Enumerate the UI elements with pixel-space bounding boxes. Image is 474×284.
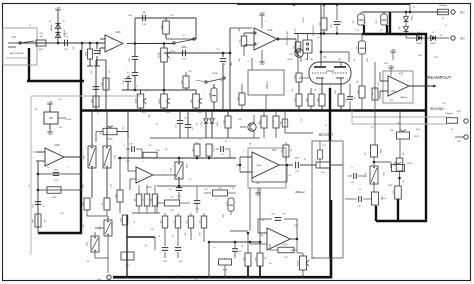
svg-text:10K: 10K: [305, 59, 308, 61]
svg-text:C4.1: C4.1: [129, 74, 131, 78]
svg-text:R5c: R5c: [282, 149, 284, 152]
svg-text:R73: R73: [244, 257, 246, 260]
svg-text:A100K: A100K: [297, 260, 300, 266]
svg-text:2: 2: [112, 49, 113, 51]
svg-text:10K: 10K: [269, 263, 272, 265]
svg-text:15V: 15V: [440, 35, 443, 37]
svg-text:4n7: 4n7: [289, 175, 292, 177]
svg-text:DR1: DR1: [460, 13, 465, 15]
svg-text:J1: J1: [29, 25, 31, 27]
svg-text:C42: C42: [176, 124, 178, 127]
svg-text:10n: 10n: [145, 245, 148, 247]
svg-text:IC3a: IC3a: [384, 63, 388, 65]
svg-text:1u: 1u: [135, 85, 137, 87]
svg-text:2X15V: 2X15V: [65, 119, 72, 121]
svg-text:C80: C80: [151, 229, 154, 231]
svg-text:1n: 1n: [351, 167, 353, 169]
svg-text:C43: C43: [191, 126, 193, 129]
svg-text:R10: R10: [212, 148, 214, 151]
svg-text:3: 3: [112, 39, 113, 41]
svg-text:R43: R43: [239, 119, 242, 121]
svg-text:100K: 100K: [60, 213, 64, 215]
svg-text:R5b: R5b: [371, 92, 373, 95]
svg-text:PE: PE: [35, 109, 37, 111]
svg-text:1n: 1n: [199, 139, 201, 141]
svg-text:+15V: +15V: [259, 13, 265, 15]
svg-text:NP: NP: [304, 159, 306, 161]
svg-text:R22: R22: [320, 22, 322, 25]
svg-text:R60: R60: [127, 161, 130, 163]
svg-text:V1: V1: [323, 55, 327, 59]
svg-text:IC2: IC2: [268, 28, 273, 32]
svg-text:REVOUT: REVOUT: [319, 133, 334, 137]
svg-text:10uF: 10uF: [382, 198, 386, 200]
svg-text:22u: 22u: [233, 187, 235, 190]
svg-text:10K: 10K: [211, 145, 213, 148]
svg-text:16u: 16u: [354, 59, 356, 62]
svg-text:MGBL: MGBL: [392, 91, 397, 93]
svg-text:15V: 15V: [399, 35, 402, 37]
svg-text:C4.8: C4.8: [123, 80, 125, 84]
svg-text:R76: R76: [161, 220, 163, 223]
svg-text:820R: 820R: [335, 90, 337, 93]
svg-text:D2: D2: [63, 21, 65, 23]
svg-text:C55: C55: [238, 251, 241, 253]
svg-text:100pF: 100pF: [294, 225, 298, 227]
svg-text:1N4007: 1N4007: [416, 43, 422, 45]
svg-text:VR6: VR6: [376, 20, 378, 23]
svg-text:47K: 47K: [205, 189, 208, 191]
svg-text:1n: 1n: [123, 145, 125, 147]
svg-text:BC549: BC549: [287, 59, 292, 61]
svg-text:C58: C58: [227, 202, 229, 205]
svg-text:IC7b: IC7b: [282, 244, 288, 247]
svg-text:4u7: 4u7: [224, 63, 226, 66]
svg-text:B10K: B10K: [382, 172, 384, 175]
svg-text:-15V: -15V: [48, 134, 53, 136]
svg-text:R11: R11: [240, 39, 242, 42]
svg-text:1M: 1M: [40, 36, 43, 38]
svg-text:47K: 47K: [291, 149, 293, 152]
svg-text:2u2: 2u2: [359, 189, 362, 191]
svg-text:4.7u: 4.7u: [64, 36, 68, 38]
svg-text:47u: 47u: [102, 46, 104, 49]
svg-text:R16: R16: [295, 75, 297, 78]
svg-text:47u: 47u: [365, 21, 367, 24]
svg-text:10u: 10u: [185, 117, 187, 120]
svg-text:1n0: 1n0: [87, 261, 90, 263]
svg-text:1: 1: [125, 46, 126, 48]
svg-text:1n: 1n: [247, 61, 249, 63]
svg-text:R18: R18: [318, 98, 320, 101]
svg-text:R42: R42: [224, 120, 226, 123]
svg-text:47K: 47K: [295, 29, 297, 32]
svg-text:350V: 350V: [367, 58, 369, 62]
svg-text:10K: 10K: [83, 225, 85, 228]
svg-text:+15V: +15V: [390, 50, 396, 52]
svg-text:+15V: +15V: [388, 66, 394, 68]
svg-text:1M0: 1M0: [357, 80, 359, 83]
svg-text:1K0: 1K0: [99, 133, 102, 135]
svg-text:A100K: A100K: [107, 138, 113, 141]
svg-text:R53: R53: [102, 82, 104, 85]
svg-text:220K: 220K: [331, 24, 333, 28]
svg-text:C4.3: C4.3: [129, 58, 131, 62]
svg-text:R64: R64: [261, 235, 264, 237]
svg-text:D1: D1: [49, 21, 51, 23]
svg-text:C50: C50: [357, 46, 359, 49]
svg-text:25V: 25V: [171, 235, 173, 238]
svg-text:73.1: 73.1: [11, 35, 17, 39]
svg-text:R52: R52: [92, 99, 94, 102]
svg-text:47K: 47K: [242, 245, 244, 248]
svg-text:X100: X100: [87, 242, 89, 246]
svg-text:7915: 7915: [58, 127, 62, 129]
svg-text:DR2: DR2: [460, 39, 465, 41]
svg-text:100n: 100n: [198, 232, 200, 235]
svg-text:ECC83: ECC83: [326, 71, 334, 73]
svg-text:IC6: IC6: [272, 148, 277, 152]
svg-text:VR11: VR11: [388, 185, 393, 187]
svg-text:IC3: IC3: [399, 72, 404, 76]
svg-text:PREAMPOUT: PREAMPOUT: [425, 75, 452, 80]
svg-text:R1b: R1b: [281, 121, 283, 124]
svg-text:+NF: +NF: [261, 220, 264, 222]
svg-text:22K: 22K: [265, 257, 267, 260]
svg-text:C10: C10: [350, 182, 353, 184]
svg-text:VR5: VR5: [353, 20, 355, 23]
svg-text:R4d: R4d: [272, 120, 274, 123]
svg-text:D1: D1: [418, 32, 420, 34]
svg-text:VR10: VR10: [407, 163, 413, 165]
svg-text:R02: R02: [218, 188, 221, 190]
svg-text:D5: D5: [399, 27, 401, 29]
svg-text:1u: 1u: [215, 199, 217, 201]
svg-text:50Hz: 50Hz: [418, 55, 422, 57]
svg-text:47u: 47u: [389, 21, 391, 24]
svg-text:100K: 100K: [396, 123, 400, 125]
svg-text:4,5: 4,5: [329, 87, 331, 89]
svg-text:OUT: OUT: [442, 103, 445, 105]
svg-text:D2: D2: [432, 32, 434, 34]
svg-text:R1c: R1c: [301, 118, 303, 121]
svg-text:R59: R59: [156, 150, 159, 152]
svg-text:SIGGND: SIGGND: [430, 107, 444, 111]
svg-text:0V: 0V: [97, 113, 99, 115]
svg-text:R44: R44: [260, 120, 262, 123]
svg-text:R5a: R5a: [358, 90, 360, 93]
svg-text:1n0: 1n0: [317, 37, 320, 39]
svg-text:R78: R78: [187, 220, 189, 223]
svg-text:ABGa1: ABGa1: [400, 96, 408, 99]
svg-text:1uF: 1uF: [42, 205, 44, 208]
svg-text:R57: R57: [182, 80, 184, 83]
svg-text:C79: C79: [200, 220, 202, 223]
svg-text:IC7a: IC7a: [146, 186, 152, 189]
svg-text:IC4b: IC4b: [54, 143, 60, 147]
svg-text:TR1: TR1: [322, 145, 325, 147]
svg-text:R23: R23: [344, 98, 346, 101]
svg-text:AS-PC MONO: AS-PC MONO: [10, 52, 24, 55]
svg-text:100R: 100R: [223, 214, 225, 217]
svg-text:100K: 100K: [91, 70, 93, 74]
svg-text:X101: X101: [84, 155, 86, 159]
svg-text:1M0: 1M0: [403, 152, 405, 155]
svg-text:4051: 4051: [109, 184, 111, 188]
svg-text:R54: R54: [238, 97, 240, 100]
svg-text:1n: 1n: [213, 247, 215, 249]
svg-text:R15: R15: [294, 45, 296, 48]
svg-text:22K: 22K: [109, 71, 111, 74]
svg-text:-15V: -15V: [163, 261, 168, 263]
svg-text:R65: R65: [257, 183, 260, 185]
svg-text:MGBL: MGBL: [257, 165, 262, 167]
svg-text:10K: 10K: [110, 225, 112, 228]
svg-text:47n: 47n: [341, 21, 343, 24]
svg-text:500mAmp: 500mAmp: [445, 112, 453, 115]
svg-text:1K: 1K: [315, 159, 317, 161]
svg-text:R51: R51: [193, 148, 195, 151]
svg-text:1M0: 1M0: [39, 33, 43, 35]
svg-text:R77: R77: [393, 190, 395, 193]
svg-text:R80: R80: [33, 219, 35, 222]
svg-text:+15V: +15V: [47, 102, 53, 104]
svg-text:10n: 10n: [165, 149, 168, 151]
svg-text:R10: R10: [239, 28, 241, 31]
svg-text:8uF: 8uF: [353, 97, 355, 100]
svg-text:4n7: 4n7: [183, 35, 186, 37]
svg-text:47u: 47u: [134, 221, 136, 224]
svg-text:D5: D5: [413, 7, 415, 9]
svg-text:4051: 4051: [83, 184, 85, 188]
svg-text:10u: 10u: [127, 72, 130, 74]
svg-text:A10K: A10K: [135, 98, 138, 103]
svg-text:ABG41: ABG41: [266, 80, 269, 88]
svg-text:100n: 100n: [185, 232, 187, 235]
svg-text:R19: R19: [307, 98, 309, 101]
svg-text:22n: 22n: [189, 179, 192, 181]
svg-text:10K: 10K: [47, 167, 50, 169]
svg-text:22K: 22K: [149, 145, 152, 147]
svg-text:C47: C47: [220, 154, 223, 156]
svg-text:47K: 47K: [365, 153, 367, 156]
svg-text:R61: R61: [83, 202, 85, 205]
svg-text:470K: 470K: [378, 82, 380, 85]
svg-text:PHPSHIFTER: PHPSHIFTER: [287, 31, 289, 45]
svg-text:LK12: LK12: [303, 17, 305, 23]
svg-text:NE: NE: [49, 117, 53, 120]
svg-text:4u7: 4u7: [65, 33, 68, 35]
svg-text:680R: 680R: [149, 114, 151, 117]
svg-text:100K: 100K: [239, 58, 241, 62]
svg-text:22u: 22u: [371, 127, 374, 129]
svg-text:OP: OP: [325, 125, 327, 127]
svg-text:C62: C62: [33, 204, 35, 207]
svg-text:10u: 10u: [221, 79, 223, 82]
svg-text:T1: T1: [445, 25, 447, 27]
svg-text:PM: PM: [290, 54, 293, 56]
svg-text:B100K: B100K: [185, 164, 187, 168]
svg-text:+NF: +NF: [248, 144, 251, 146]
svg-text:R81: R81: [121, 218, 123, 221]
svg-text:C40: C40: [357, 206, 360, 208]
svg-text:R17: R17: [295, 98, 297, 101]
svg-text:LED1: LED1: [201, 122, 203, 127]
svg-text:A100K: A100K: [158, 51, 161, 57]
svg-text:SW1b: SW1b: [212, 73, 219, 75]
svg-text:C71: C71: [355, 30, 358, 32]
svg-text:1N4007: 1N4007: [410, 15, 412, 21]
svg-text:7815: 7815: [58, 99, 62, 101]
svg-text:ABGa2: ABGa2: [295, 190, 305, 194]
svg-text:10u: 10u: [169, 189, 172, 191]
svg-text:-15V: -15V: [260, 64, 265, 66]
svg-text:4K7: 4K7: [403, 180, 405, 183]
svg-text:1K: 1K: [155, 123, 157, 125]
svg-text:-15V: -15V: [389, 100, 394, 102]
svg-text:+15V: +15V: [55, 8, 61, 10]
svg-text:1N4007: 1N4007: [430, 43, 436, 45]
svg-text:C77: C77: [174, 220, 176, 223]
svg-text:25V: 25V: [159, 235, 161, 238]
svg-text:1u0: 1u0: [29, 185, 31, 188]
svg-text:C44: C44: [195, 123, 197, 126]
svg-text:4u7: 4u7: [225, 141, 228, 143]
svg-text:R62: R62: [102, 202, 104, 205]
svg-text:1N4148: 1N4148: [51, 25, 53, 32]
svg-text:500mAmp: 500mAmp: [439, 4, 447, 7]
svg-text:IC1b: IC1b: [115, 30, 121, 34]
svg-text:A100K: A100K: [158, 98, 161, 104]
svg-text:1K5: 1K5: [292, 89, 294, 92]
svg-text:330uF: 330uF: [294, 158, 300, 160]
svg-text:VR12: VR12: [414, 136, 420, 138]
svg-text:10k: 10k: [43, 220, 45, 223]
svg-text:R63: R63: [256, 257, 258, 260]
svg-text:X111: X111: [113, 155, 115, 159]
svg-text:C72: C72: [379, 30, 382, 32]
svg-text:+15V: +15V: [178, 261, 183, 263]
svg-text:LED2: LED2: [216, 122, 218, 127]
